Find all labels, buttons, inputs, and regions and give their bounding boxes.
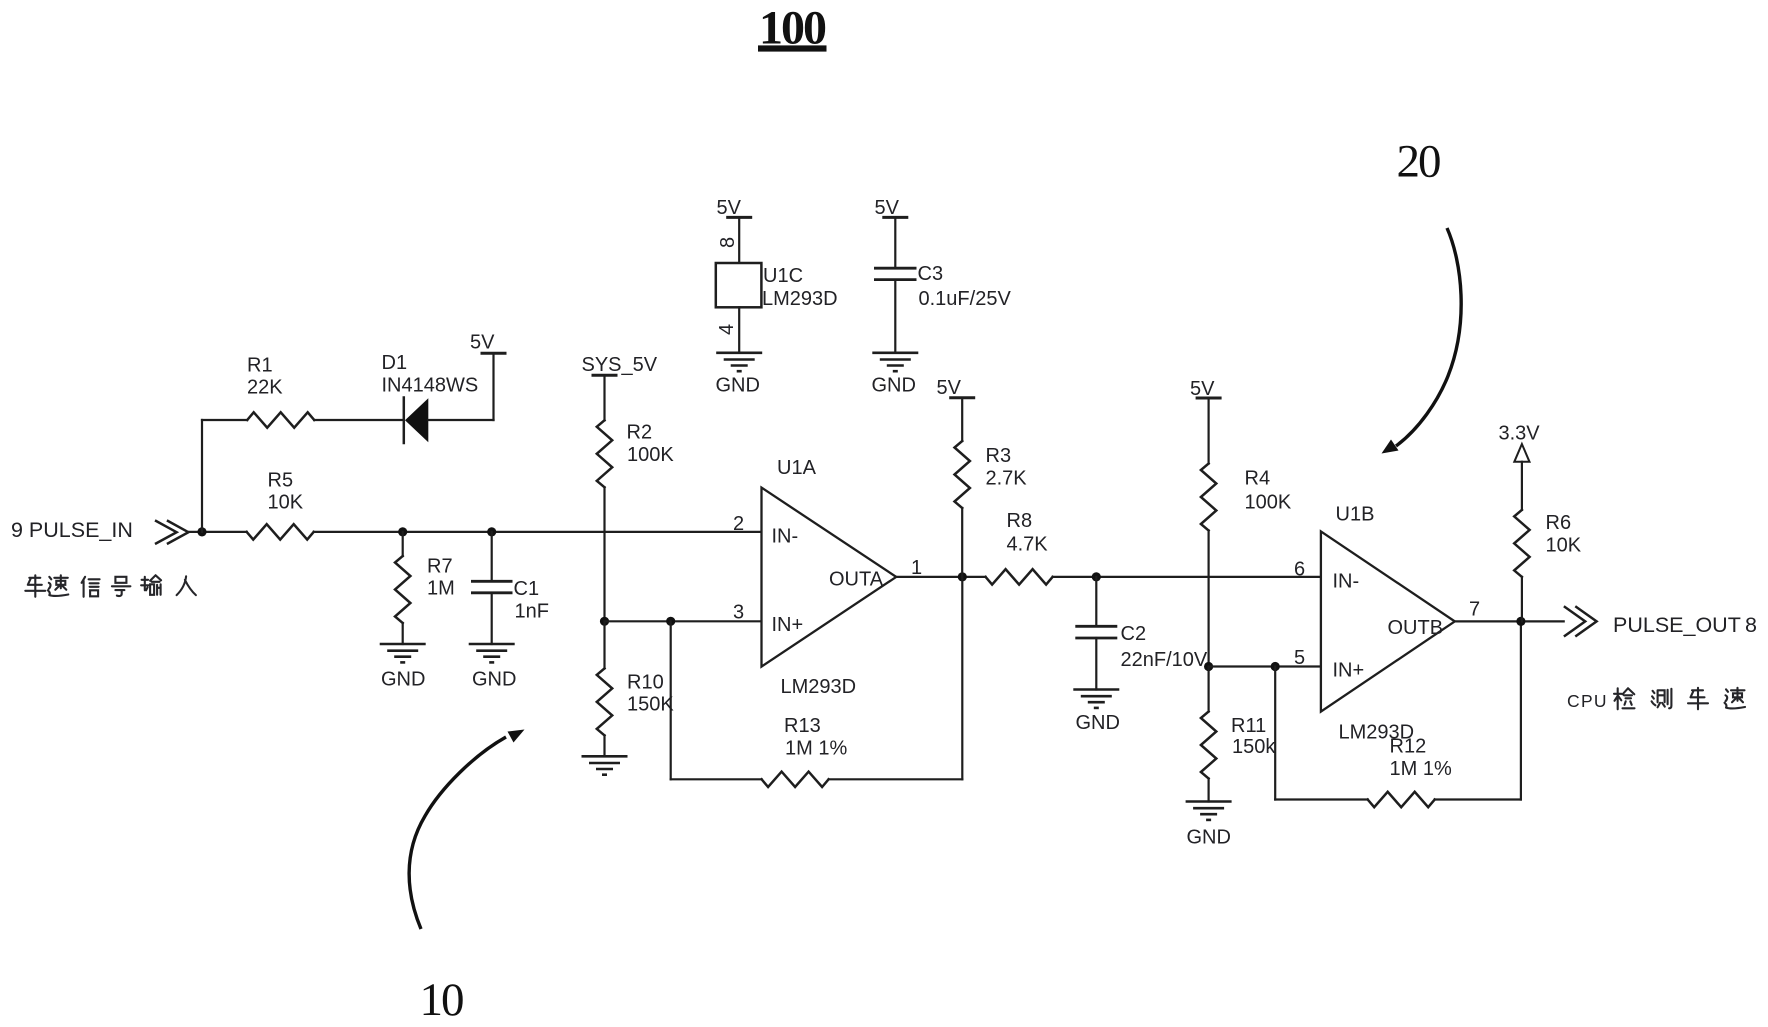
svg-text:R3: R3 [986,445,1012,467]
svg-text:1M: 1M [427,578,455,600]
svg-text:5V: 5V [470,332,495,354]
svg-text:GND: GND [381,669,425,691]
wire: input node up to R1 branch [201,420,203,532]
resistor R2 [597,420,612,487]
svg-text:22K: 22K [247,377,283,399]
resistor R4 [1201,398,1216,667]
ground (C2) [1073,690,1120,735]
svg-text:150K: 150K [627,694,674,716]
svg-text:IN4148WS: IN4148WS [382,375,479,397]
wire: R13 to feedback A right [829,778,963,780]
svg-text:1M 1%: 1M 1% [1390,758,1452,780]
port PULSE_OUT chevron connector [1565,607,1597,636]
capacitor C2 [1075,577,1117,690]
title 100 [758,2,827,55]
svg-text:5: 5 [1294,647,1305,669]
net SYS_5V [582,354,658,376]
wire: feedback B left [1274,667,1276,800]
svg-text:LM293D: LM293D [762,288,838,310]
wire: feedback A bottom left [670,621,672,779]
svg-text:R6: R6 [1546,512,1572,534]
svg-text:SYS_5V: SYS_5V [582,354,658,376]
svg-text:IN+: IN+ [772,614,804,636]
port PULSE_IN chevron connector [156,521,188,543]
power 5V (D1) [470,332,507,354]
power 5V (R4) [1190,378,1222,400]
svg-text:4.7K: 4.7K [1007,534,1049,556]
node feedback junction B [1271,662,1280,671]
wire: IN+ rail A [605,620,762,622]
resistor R10 [597,621,612,756]
resistor R11 [1201,667,1216,802]
capacitor C1 [471,532,513,644]
svg-text:R11: R11 [1231,715,1266,737]
svg-text:22nF/10V: 22nF/10V [1121,649,1208,671]
svg-text:10: 10 [420,974,464,1026]
resistor R3 [955,398,970,577]
power 3.3V symbol [1499,423,1541,462]
node C1 junction [487,527,496,536]
ground (U1C) [716,353,763,397]
svg-text:1: 1 [911,557,922,579]
wire: chevron to IN- rail, node A [188,531,246,533]
svg-text:4: 4 [716,324,738,335]
svg-text:5V: 5V [717,197,742,219]
svg-text:GND: GND [472,669,516,691]
node R4/R11 junction [1204,662,1213,671]
ground (C1) [469,644,517,691]
svg-text:5V: 5V [1190,378,1215,400]
svg-text:10K: 10K [268,492,304,514]
resistor R13 [762,772,829,787]
wire: R1 to D1 [314,419,402,421]
op-amp U1B [1321,531,1455,711]
svg-text:CPU: CPU [1567,691,1608,711]
svg-text:R13: R13 [784,715,821,737]
svg-text:R5: R5 [268,470,294,492]
svg-text:1nF: 1nF [515,601,549,623]
svg-text:R1: R1 [247,355,273,377]
arrow to section 20 [1382,228,1462,454]
IC U1C power block [716,197,762,353]
svg-text:2: 2 [733,513,744,535]
svg-text:20: 20 [1397,136,1441,188]
node A junction [197,527,206,536]
svg-text:8: 8 [1745,613,1757,637]
svg-text:GND: GND [716,375,760,397]
svg-text:D1: D1 [382,352,408,374]
wire: SYS_5V to R2 [603,375,605,420]
svg-text:R7: R7 [427,556,453,578]
svg-text:3: 3 [733,602,744,624]
op-amp U1A [762,488,897,667]
resistor R6 [1514,462,1529,622]
wire: D1 to 5V riser [428,419,493,421]
node R7 junction [398,527,407,536]
wire: OUTA to R8 [896,576,985,578]
svg-text:OUTB: OUTB [1388,617,1444,639]
svg-text:GND: GND [1076,712,1120,734]
svg-text:150k: 150k [1232,736,1276,758]
svg-text:100K: 100K [1245,492,1292,514]
ground (R10) [582,756,628,774]
svg-text:9 PULSE_IN: 9 PULSE_IN [11,518,133,542]
svg-text:U1B: U1B [1336,504,1375,526]
wire: feedback A down [961,577,963,779]
svg-text:GND: GND [1187,827,1231,849]
svg-text:LM293D: LM293D [781,676,857,698]
svg-text:0.1uF/25V: 0.1uF/25V [919,288,1012,310]
svg-text:10K: 10K [1546,535,1582,557]
svg-text:U1A: U1A [777,457,817,479]
svg-text:GND: GND [872,375,916,397]
ground (R7) [380,644,426,691]
svg-text:U1C: U1C [763,265,803,287]
power 5V (R3) [937,377,976,399]
svg-text:R12: R12 [1390,736,1427,758]
resistor R1 [247,412,314,427]
svg-text:R4: R4 [1245,468,1271,490]
svg-text:IN-: IN- [772,526,799,548]
svg-text:R8: R8 [1007,510,1033,532]
node R2/R10 junction [600,617,609,626]
node OUTB junction [1516,617,1525,626]
svg-text:R2: R2 [627,422,653,444]
label CPU检测车速 (CPU detects vehicle speed) [1567,688,1745,711]
svg-text:8: 8 [717,237,739,248]
wire: R12 to output riser [1435,798,1521,800]
resistor R7 [395,532,410,644]
svg-text:3.3V: 3.3V [1499,423,1541,445]
diode D1 [404,398,429,444]
svg-text:1M 1%: 1M 1% [785,738,847,760]
node C2 junction [1092,572,1101,581]
svg-text:R10: R10 [627,672,664,694]
wire: IN+ rail B [1209,665,1321,667]
svg-text:IN-: IN- [1333,571,1360,593]
svg-text:C3: C3 [918,263,944,285]
svg-text:2.7K: 2.7K [986,468,1028,490]
node feedback junction A [666,617,675,626]
svg-text:6: 6 [1294,559,1305,581]
wire: OUTB rail [1455,620,1564,622]
svg-text:C1: C1 [514,578,540,600]
label 车速信号输入 (vehicle speed signal input) [25,575,196,597]
svg-text:IN+: IN+ [1333,660,1365,682]
capacitor C3 [874,197,917,353]
ground (R11) [1186,802,1232,849]
svg-text:5V: 5V [875,197,900,219]
svg-text:100K: 100K [627,444,674,466]
wire: R1 branch left segment [202,419,247,421]
resistor R8 [986,569,1053,584]
svg-text:OUTA: OUTA [829,569,884,591]
wire: R5 to U1A IN- [314,531,762,533]
resistor R12 [1368,792,1435,807]
resistor R5 [247,524,314,539]
svg-text:C2: C2 [1121,623,1147,645]
wire: R8 to U1B IN- rail [1053,576,1321,578]
svg-text:5V: 5V [937,377,962,399]
node OUTA junction [958,572,967,581]
arrow to section 10 [409,730,524,930]
wire: R2 to IN+ node (crosses IN- rail) [603,487,605,621]
ground (C3) [872,353,919,397]
svg-text:PULSE_OUT: PULSE_OUT [1613,613,1741,637]
svg-text:7: 7 [1469,599,1480,621]
